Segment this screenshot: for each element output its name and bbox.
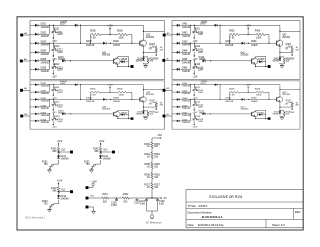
svg-text:+10V: +10V — [107, 25, 113, 27]
svg-text:R513: R513 — [195, 116, 201, 118]
pad gate4 input A — [163, 89, 166, 92]
svg-text:R407: R407 — [286, 44, 292, 46]
gate 2 rail ring — [172, 21, 300, 80]
wire gate4 input B — [165, 115, 172, 117]
svg-text:D307: D307 — [60, 83, 66, 85]
diode D201 1N4148 — [35, 24, 38, 27]
diode D402 1N4148 — [177, 33, 180, 36]
wire gate2 merge bus 3 — [190, 61, 192, 70]
pad gate2 output — [268, 65, 271, 68]
resistor R507 1.5K — [291, 101, 293, 102]
svg-text:R153: R153 — [154, 144, 160, 146]
svg-text:1K: 1K — [147, 146, 150, 148]
resistor R411 3K — [194, 29, 199, 34]
wire divider segment — [151, 159, 153, 163]
wire gate2 row1 extension — [191, 24, 215, 26]
wire gate2 row5 long wire — [206, 60, 252, 62]
svg-text:1N4148: 1N4148 — [60, 198, 69, 200]
wire gate4 row1 extension — [191, 84, 215, 86]
svg-text:C412: C412 — [198, 50, 204, 52]
wire divider top jog — [151, 138, 153, 142]
wire sub1 junction — [58, 154, 60, 156]
resistor R513 3K — [194, 117, 199, 121]
wire gate1 clamp join — [142, 63, 144, 64]
svg-text:R142: R142 — [93, 149, 99, 151]
wire gate1 Q22 collector rail — [142, 25, 144, 40]
capacitor C212 100P — [51, 48, 55, 52]
resistor R142 68K — [99, 147, 102, 153]
svg-text:1N645: 1N645 — [201, 81, 208, 83]
capacitor C213 100P — [51, 66, 55, 70]
wire gate1 bias corner — [128, 34, 132, 36]
svg-text:D405: D405 — [182, 59, 188, 61]
diode D207 1N645 — [75, 24, 78, 27]
wire P4 +10V — [88, 187, 93, 189]
transistor Q51 2N1305 — [252, 112, 258, 117]
svg-text:D511: D511 — [274, 112, 279, 114]
wire gate2 merge bus 2 — [190, 43, 192, 52]
diode D206 1N4148 — [35, 68, 38, 71]
transistor Q52 2N1304 — [277, 97, 283, 102]
svg-text:+10V: +10V — [91, 181, 97, 183]
power -15V arrow gate2 rc3 — [193, 70, 195, 72]
resistor R506 100K — [256, 91, 265, 93]
wire gate4 top rail — [218, 84, 280, 86]
svg-text:R154: R154 — [144, 154, 150, 156]
resistor R153 100 divider — [151, 142, 154, 148]
svg-text:R212: R212 — [54, 46, 60, 48]
pad gate1 input A — [20, 34, 23, 37]
capacitor C312 100P — [51, 103, 55, 106]
wire gate2 bias corner — [265, 34, 269, 36]
svg-text:D302: D302 — [41, 91, 47, 93]
wire gate2 row4 — [172, 51, 177, 53]
pad sub3 output — [70, 190, 73, 193]
svg-text:+10V: +10V — [57, 181, 63, 183]
title block outer box — [186, 190, 303, 228]
svg-text:1N4148: 1N4148 — [86, 45, 95, 47]
wire gate2 drop to AND node — [219, 25, 220, 26]
wire gate3 Q31 collector rail — [117, 110, 119, 112]
svg-text:1N4148: 1N4148 — [41, 93, 50, 95]
wire gate3 pulldown stub 2 — [53, 99, 55, 102]
svg-text:+10V: +10V — [99, 141, 105, 143]
node -3V junction — [151, 197, 152, 198]
wire gate4 base wire Q52 — [248, 99, 249, 100]
svg-text:+10V: +10V — [246, 25, 252, 27]
pad P5 -3V rail terminal — [86, 197, 89, 200]
svg-text:68K: 68K — [52, 151, 57, 153]
svg-text:+10V: +10V — [107, 85, 113, 87]
resistor R413 3K — [194, 64, 199, 69]
resistor R212 3K — [53, 47, 58, 52]
svg-text:1N645: 1N645 — [60, 81, 68, 83]
svg-text:1N4148: 1N4148 — [60, 159, 69, 161]
gate 1 rail ring — [30, 21, 165, 80]
resistor R305 7.5K — [91, 91, 101, 93]
svg-text:R305: R305 — [90, 89, 96, 91]
wire gate2 row3 extension — [191, 42, 242, 44]
wire gate3 pulldown stub 3 — [53, 114, 55, 117]
diode D505 1N4148 — [177, 113, 180, 115]
svg-text:D204: D204 — [41, 51, 47, 53]
wire gate1 input B — [23, 60, 30, 62]
diode D143 1N4148 — [57, 195, 60, 198]
resistor R508 100 — [283, 111, 285, 115]
svg-text:D202: D202 — [41, 33, 47, 35]
power -15V arrow gate4 rc3 — [193, 121, 195, 122]
capacitor C211 100P — [51, 30, 55, 34]
wire gate1 row5 — [30, 60, 35, 62]
wire gate2 output stub — [266, 66, 268, 68]
svg-text:-3V: -3V — [285, 48, 289, 50]
capacitor C151 6.8U — [145, 199, 148, 201]
wire gate1 input A — [23, 34, 30, 36]
resistor R153 750 — [49, 203, 55, 209]
title block sheet divider — [265, 219, 267, 228]
power -15V gate1 emitter — [155, 53, 157, 55]
svg-text:-3V: -3V — [148, 48, 152, 50]
svg-text:R307: R307 — [149, 100, 155, 102]
svg-text:100P: 100P — [57, 107, 63, 109]
diode D503 1N4148 — [177, 98, 180, 100]
pad gate1 output — [131, 65, 134, 68]
wire gate1 top rail — [78, 24, 143, 26]
svg-text:C512: C512 — [198, 105, 204, 107]
svg-text:1N4148: 1N4148 — [182, 71, 191, 73]
wire gate1 Q21 collector rail — [117, 57, 119, 59]
svg-text:R152: R152 — [123, 194, 129, 196]
svg-text:R157: R157 — [144, 185, 150, 187]
svg-text:D510: D510 — [199, 111, 205, 113]
svg-text:C513: C513 — [198, 119, 204, 121]
wire gate2 pulldown stub 1 — [193, 25, 195, 29]
wire gate2 bias rail — [229, 35, 231, 44]
wire gate4 bias corner — [265, 91, 269, 93]
wire gate1 bias rail — [90, 35, 92, 44]
svg-text:100P: 100P — [57, 52, 63, 54]
svg-text:C312: C312 — [57, 105, 63, 107]
node gate2 merge 3 — [190, 60, 191, 61]
svg-text:1.5K: 1.5K — [286, 46, 291, 48]
capacitor C153 filter — [136, 198, 138, 200]
diode D403 1N4148 — [177, 42, 180, 45]
wire gate2 input A — [166, 34, 172, 36]
wire gate4 clamp join — [279, 115, 281, 118]
wire gate4 clamp branch — [279, 107, 281, 111]
resistor R152 820 — [123, 197, 130, 200]
svg-text:D305: D305 — [41, 112, 47, 114]
wire gate1 output stub — [129, 66, 131, 68]
pad sub1 output — [70, 151, 73, 154]
diode D501 1N4148 — [177, 84, 180, 86]
wire gate3 row5 long wire — [66, 113, 114, 115]
svg-text:-15V: -15V — [157, 135, 162, 137]
wire cap bottom rail — [147, 210, 158, 212]
resistor R157 100 divider — [151, 183, 154, 189]
svg-text:D211: D211 — [137, 58, 143, 60]
svg-text:D310: D310 — [58, 111, 64, 113]
svg-text:D410: D410 — [199, 57, 205, 59]
power -15V divider — [160, 137, 162, 139]
svg-text:D402: D402 — [182, 33, 188, 35]
svg-text:2N1304: 2N1304 — [146, 37, 155, 39]
svg-text:R306: R306 — [117, 89, 123, 91]
node gate3 merge 2 — [49, 99, 50, 100]
svg-text:R406: R406 — [255, 30, 261, 32]
resistor R208 100 — [147, 58, 149, 63]
wire gate3 row1 — [30, 84, 35, 86]
diode D508 1N4148 — [241, 98, 244, 100]
svg-text:C213: C213 — [57, 67, 63, 69]
wire gate4 row3 extension — [191, 98, 242, 100]
wire gate4 merge bus 2 — [190, 99, 192, 106]
svg-text:R411: R411 — [195, 28, 201, 30]
transistor Q41 2N1305 — [252, 58, 258, 64]
wire -3V rail to divider — [129, 197, 152, 199]
svg-text:6.8U: 6.8U — [140, 203, 145, 205]
capacitor C412 100P — [192, 48, 196, 52]
ground gate3 clamp — [144, 117, 148, 119]
resistor R154 100 divider — [151, 152, 154, 158]
pad gate3 input A — [20, 89, 23, 92]
svg-text:-15V: -15V — [193, 97, 198, 99]
pad gate4 output — [268, 117, 271, 119]
diode D510 1N645 — [190, 113, 191, 114]
svg-text:D407: D407 — [201, 24, 207, 26]
svg-text:-15V: -15V — [193, 41, 198, 43]
ground gate2 clamp — [280, 65, 284, 67]
svg-text:1N4148: 1N4148 — [182, 54, 191, 56]
svg-text:Sheet: 1/1: Sheet: 1/1 — [272, 223, 285, 227]
ground sub1 — [48, 168, 50, 170]
svg-text:C152: C152 — [159, 201, 165, 203]
wire gate4 row6 — [172, 120, 177, 122]
svg-text:1N4148: 1N4148 — [225, 101, 234, 103]
svg-text:2N1304: 2N1304 — [282, 37, 291, 39]
power -15V gate4 emitter — [291, 107, 293, 108]
svg-text:1N4148: 1N4148 — [182, 108, 191, 110]
svg-text:R311: R311 — [54, 87, 60, 89]
wire gate4 row2 — [172, 91, 177, 93]
svg-text:1N4148: 1N4148 — [41, 45, 50, 47]
svg-text:R412: R412 — [195, 46, 201, 48]
wire gate3 Q32 collector rail — [142, 85, 144, 97]
diode D311 1N645 — [142, 111, 145, 114]
wire gate4 input A — [165, 89, 172, 91]
svg-text:-15V: -15V — [52, 41, 57, 43]
svg-text:1N4148: 1N4148 — [182, 101, 191, 103]
svg-text:TITLE:: TITLE: — [188, 204, 197, 208]
wire gate1 row3 extension — [50, 42, 104, 44]
diode D308 1N4148 — [103, 98, 106, 100]
svg-text:R156: R156 — [144, 174, 150, 176]
svg-text:C211: C211 — [57, 32, 63, 34]
resistor R511 3K — [194, 88, 199, 92]
wire gate1 pulldown stub 2 — [53, 43, 55, 47]
resistor R306 100K — [119, 91, 128, 93]
resistor R155 100 divider — [151, 162, 154, 168]
svg-text:+10V: +10V — [57, 141, 63, 143]
node gate4 merge 1 — [190, 84, 191, 85]
pad gate1 input B — [20, 60, 23, 63]
svg-text:1N645: 1N645 — [135, 114, 142, 116]
svg-text:D509: D509 — [251, 98, 257, 100]
svg-text:R511: R511 — [195, 87, 201, 89]
wire gate3 input B — [23, 115, 30, 117]
wire gate1 base wire Q22 — [110, 43, 111, 44]
svg-text:D143: D143 — [60, 196, 66, 198]
svg-text:6.8U: 6.8U — [159, 203, 164, 205]
svg-text:C150: C150 — [111, 203, 117, 205]
diode D406 1N4148 — [177, 68, 180, 71]
svg-text:7.5K: 7.5K — [91, 37, 96, 39]
capacitor C313 100P — [51, 118, 55, 121]
capacitor C413 100P — [192, 66, 196, 70]
svg-text:D304: D304 — [41, 105, 47, 107]
resistor R143 68K — [57, 187, 60, 193]
wire divider bottom — [151, 193, 153, 198]
resistor R152 750 — [91, 163, 97, 169]
node gate2 merge 1 — [190, 25, 191, 26]
svg-text:-15V: -15V — [193, 76, 198, 78]
svg-text:EXCLUSIVE OR R131: EXCLUSIVE OR R131 — [209, 195, 242, 199]
diode D507 1N645 — [215, 84, 218, 86]
pad gate3 input B — [20, 115, 23, 118]
svg-text:C313: C313 — [57, 119, 63, 121]
diode D502 1N4148 — [177, 91, 180, 93]
wire gate1 row2 — [30, 33, 35, 35]
svg-text:1N4148: 1N4148 — [225, 45, 234, 47]
diode D410 1N645 — [190, 60, 191, 61]
svg-text:1N4148: 1N4148 — [41, 71, 50, 73]
wire gate4 merge bus 1 — [190, 85, 192, 92]
wire gate4 emitter to R507 — [280, 106, 292, 108]
node gate1 merge 1 — [49, 25, 50, 26]
svg-text:Q21: Q21 — [102, 52, 107, 54]
svg-text:D403: D403 — [182, 41, 188, 43]
svg-text:-15V: -15V — [52, 112, 58, 114]
resistor R412 3K — [194, 47, 199, 52]
svg-text:D504: D504 — [182, 105, 188, 107]
title block row divider 3 — [186, 218, 303, 220]
svg-text:.5W: .5W — [159, 104, 163, 106]
svg-text:R413: R413 — [195, 64, 201, 66]
wire gate2 row6 — [172, 68, 177, 70]
svg-text:7.5K: 7.5K — [230, 37, 235, 39]
svg-text:D303: D303 — [41, 98, 47, 100]
pad gate2 input B — [162, 59, 165, 62]
svg-text:R143: R143 — [51, 188, 57, 190]
svg-text:D309: D309 — [113, 98, 119, 100]
svg-text:R507: R507 — [286, 100, 292, 102]
resistor R406 100K — [256, 33, 265, 36]
wire gate3 row5 — [30, 113, 35, 115]
svg-text:D141: D141 — [60, 156, 66, 158]
svg-text:D501: D501 — [182, 83, 188, 85]
svg-text:D401: D401 — [182, 24, 188, 26]
wire gate1 merge bus 1 — [49, 25, 51, 34]
wire gate1 row4 — [30, 51, 35, 53]
wire gate1 clamp branch — [142, 53, 144, 57]
svg-text:D411: D411 — [274, 58, 280, 60]
svg-text:D507: D507 — [201, 83, 207, 85]
svg-text:1N645: 1N645 — [272, 61, 279, 63]
page border frame — [17, 17, 303, 230]
svg-text:1K: 1K — [147, 156, 150, 158]
power -15V arrow gate4 rc2 — [193, 107, 195, 108]
svg-text:C413: C413 — [198, 67, 204, 69]
svg-text:D301: D301 — [41, 83, 47, 85]
svg-text:R154: R154 — [154, 154, 160, 156]
wire gate4 row1 — [172, 84, 177, 86]
node gate4 merge 3 — [190, 113, 191, 114]
diode D511 1N645 — [279, 111, 282, 114]
svg-text:R505: R505 — [229, 89, 235, 91]
svg-text:BH: BH — [24, 114, 27, 116]
svg-text:D209: D209 — [113, 41, 119, 43]
capacitor C512 100P — [192, 103, 196, 106]
wire gate1 pulldown stub 3 — [53, 61, 55, 65]
pad gate3 output — [131, 117, 134, 119]
wire gate2 Q42 collector rail — [279, 25, 281, 40]
svg-text:+10V: +10V — [246, 85, 252, 87]
wire gate1 emitter to R207 — [143, 52, 156, 54]
diode D202 1N4148 — [35, 33, 38, 36]
svg-text:100P: 100P — [198, 92, 204, 94]
wire gate3 merge bus 3 — [49, 114, 51, 121]
svg-text:2N1305: 2N1305 — [102, 109, 111, 111]
diode D405 1N4148 — [177, 59, 180, 62]
wire -3V rail — [88, 197, 102, 199]
svg-text:R313: R313 — [54, 116, 60, 118]
svg-text:R205: R205 — [90, 30, 96, 32]
svg-text:R211: R211 — [54, 28, 60, 30]
svg-text:1N4148: 1N4148 — [182, 115, 191, 117]
svg-text:1N4148: 1N4148 — [41, 54, 50, 56]
title block row divider 2 — [186, 208, 303, 210]
svg-text:R152: R152 — [84, 162, 90, 164]
svg-text:Q22: Q22 — [146, 35, 151, 37]
gate 3 rail ring — [30, 81, 165, 129]
svg-text:1N645: 1N645 — [251, 45, 258, 47]
svg-text:-15V: -15V — [154, 112, 159, 114]
svg-text:.5W: .5W — [295, 104, 299, 106]
svg-text:100P: 100P — [198, 70, 204, 72]
transistor Q42 2N1304 — [277, 40, 283, 46]
wire gate2 Q41 collector rail — [255, 57, 257, 59]
resistor R408 100 — [283, 58, 285, 63]
wire gate4 row5 — [172, 113, 177, 115]
resistor R151 820 — [102, 197, 109, 200]
diode D411 1N645 — [279, 58, 282, 61]
resistor R307 1.5K — [155, 101, 157, 102]
diode D210 1N645 — [49, 60, 50, 61]
svg-text:DLY: DLY — [104, 150, 109, 152]
svg-text:DLY: DLY — [62, 189, 67, 191]
svg-text:D205: D205 — [41, 59, 47, 61]
wire gate3 merge bus 2 — [49, 99, 51, 106]
diode D306 1N4148 — [35, 120, 38, 122]
svg-text:C311: C311 — [57, 90, 63, 92]
power -15V arrow gate3 rc1 — [52, 92, 54, 93]
svg-text:2N1305: 2N1305 — [241, 55, 250, 57]
ground gate4 clamp — [280, 117, 284, 119]
wire gate4 bias rail — [229, 92, 231, 99]
svg-text:Date:: Date: — [188, 223, 195, 227]
diode D142 1N4148 — [99, 156, 102, 159]
wire gate2 row1 — [172, 24, 177, 26]
